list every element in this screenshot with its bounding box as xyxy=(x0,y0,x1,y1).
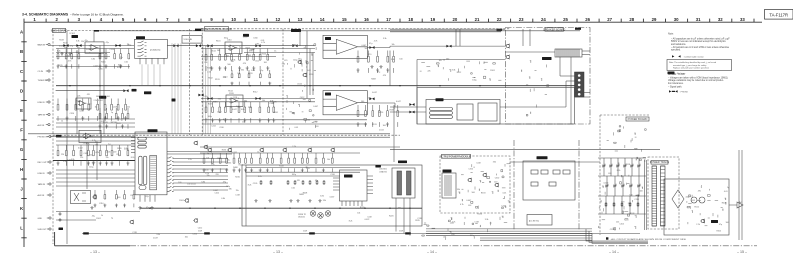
wire xyxy=(56,126,135,128)
drive transistor Q1 xyxy=(310,211,316,217)
bus wire xyxy=(56,85,576,87)
svg-text:2.2k: 2.2k xyxy=(306,168,310,170)
wire xyxy=(598,195,646,197)
selector pin xyxy=(167,160,174,161)
svg-text:0.047: 0.047 xyxy=(232,109,237,111)
IC label xyxy=(537,156,548,159)
wire xyxy=(245,165,247,226)
svg-text:REC OUT: REC OUT xyxy=(38,162,48,164)
diode xyxy=(631,164,633,167)
svg-text:– Signal path.: – Signal path. xyxy=(668,85,682,88)
wire xyxy=(200,146,400,148)
signal arrow xyxy=(369,97,374,100)
relay pins xyxy=(140,58,164,64)
volume drop wire xyxy=(180,43,182,134)
value labels xyxy=(362,38,403,80)
svg-text:C205: C205 xyxy=(98,68,103,70)
bus bend xyxy=(586,229,648,244)
svg-text:R133: R133 xyxy=(215,79,220,81)
svg-text:32: 32 xyxy=(718,17,723,22)
diode xyxy=(622,184,624,187)
transformer winding xyxy=(661,166,666,226)
svg-text:33k: 33k xyxy=(64,47,67,49)
svg-text:100: 100 xyxy=(117,197,120,199)
wire xyxy=(86,143,88,190)
sheet number box TA-F117R xyxy=(765,10,793,20)
svg-text:C412: C412 xyxy=(211,126,216,128)
board divider xyxy=(188,29,190,135)
selector pin xyxy=(131,140,135,142)
op-amp IC301 xyxy=(228,45,237,51)
svg-text:C412: C412 xyxy=(300,97,305,99)
svg-text:R220: R220 xyxy=(360,207,365,209)
op-amp IC103 xyxy=(83,133,93,139)
svg-text:R512: R512 xyxy=(694,206,699,208)
ground terminal xyxy=(59,228,64,231)
bottom note xyxy=(606,237,687,241)
resistor xyxy=(302,180,304,185)
input ladder xyxy=(57,49,80,69)
svg-text:470: 470 xyxy=(368,54,371,56)
svg-text:33k: 33k xyxy=(229,188,232,190)
svg-text:C118: C118 xyxy=(235,194,239,196)
left ruler line xyxy=(23,22,25,247)
svg-text:R101: R101 xyxy=(96,218,101,220)
svg-text:H: H xyxy=(20,167,23,172)
svg-text:C118: C118 xyxy=(474,221,478,223)
value labels xyxy=(457,161,506,207)
signal arrow xyxy=(255,97,260,100)
ground xyxy=(60,52,63,55)
transistor xyxy=(297,60,302,65)
transistor xyxy=(282,148,287,152)
svg-text:560: 560 xyxy=(96,96,99,98)
ctrl label xyxy=(441,154,470,158)
svg-text:30: 30 xyxy=(674,17,679,22)
bead label xyxy=(56,135,62,137)
wire xyxy=(624,158,626,176)
wire xyxy=(93,31,95,42)
svg-text:18: 18 xyxy=(408,17,413,22)
tone ladder lower xyxy=(205,102,275,123)
power transformer outline xyxy=(648,157,679,229)
svg-text:C412: C412 xyxy=(232,152,237,154)
svg-text:22k: 22k xyxy=(77,96,80,98)
relay pin wires xyxy=(142,64,160,85)
svg-text:10k: 10k xyxy=(357,213,360,215)
speaker board outline xyxy=(506,28,591,125)
power board outline xyxy=(600,115,650,235)
selector small oval xyxy=(139,186,146,190)
selector element xyxy=(138,141,147,144)
wire xyxy=(738,150,740,240)
selector pin xyxy=(167,179,174,180)
svg-text:3.3k: 3.3k xyxy=(391,59,395,61)
svg-text:C205: C205 xyxy=(309,74,314,76)
transistor xyxy=(467,178,472,182)
IC pins xyxy=(342,201,362,206)
svg-text:CTRL POWER MODULE: CTRL POWER MODULE xyxy=(441,154,470,158)
IC label IC101 xyxy=(72,35,79,38)
svg-text:19: 19 xyxy=(430,17,435,22)
driver bars xyxy=(397,171,402,195)
bus drop wire xyxy=(210,46,212,134)
svg-text:100: 100 xyxy=(205,170,208,172)
wire xyxy=(393,105,395,162)
svg-text:C310: C310 xyxy=(330,174,335,176)
svg-text:B: B xyxy=(20,49,23,54)
ground xyxy=(318,199,321,202)
svg-text:560: 560 xyxy=(472,192,475,194)
value labels xyxy=(61,94,130,125)
svg-text:5.6W: 5.6W xyxy=(198,231,202,233)
psu cluster xyxy=(687,186,726,226)
svg-text:560: 560 xyxy=(282,64,285,66)
svg-text:4.7k: 4.7k xyxy=(452,222,456,224)
svg-text:R220: R220 xyxy=(239,164,244,166)
board divider xyxy=(53,134,400,136)
switch cross xyxy=(74,193,86,201)
svg-text:C118: C118 xyxy=(626,164,630,166)
svg-text:C310: C310 xyxy=(468,168,473,170)
svg-text:R512: R512 xyxy=(253,92,258,94)
svg-text:470: 470 xyxy=(383,75,386,77)
wire xyxy=(201,98,315,100)
transistor xyxy=(330,148,335,152)
phono rail wire xyxy=(53,160,135,162)
svg-text:C310: C310 xyxy=(65,56,70,58)
svg-text:C: C xyxy=(20,69,23,74)
svg-text:Voltage variations may be note: Voltage variations may be noted due to n… xyxy=(668,79,724,82)
power amp IC401 xyxy=(323,35,367,58)
svg-text:E: E xyxy=(20,108,23,113)
protect board edge xyxy=(417,59,505,61)
wire xyxy=(570,57,572,124)
svg-text:22k: 22k xyxy=(127,107,130,109)
wire xyxy=(312,53,314,96)
svg-text:17: 17 xyxy=(386,17,391,22)
terminal xyxy=(578,93,581,96)
terminal xyxy=(578,79,581,82)
connector xyxy=(46,113,50,115)
svg-text:POWER BOARD: POWER BOARD xyxy=(628,117,648,121)
terminal xyxy=(578,88,581,91)
svg-text:TONE CONTROL BOARD: TONE CONTROL BOARD xyxy=(201,27,232,31)
svg-text:: nonflammable resistor: : nonflammable resistor xyxy=(683,56,704,59)
svg-text:C205: C205 xyxy=(106,151,111,153)
svg-text:R101: R101 xyxy=(490,70,495,72)
svg-text:10k: 10k xyxy=(262,100,265,102)
svg-text:0.022: 0.022 xyxy=(379,130,384,132)
svg-text:560: 560 xyxy=(365,48,368,50)
mid ladder xyxy=(99,108,129,129)
op-amp IC102 box xyxy=(76,98,91,109)
top bus wire xyxy=(94,30,580,32)
value labels xyxy=(604,164,643,231)
wire xyxy=(201,101,315,103)
wire xyxy=(246,175,340,177)
svg-text:0.01: 0.01 xyxy=(295,127,299,129)
svg-text:15k: 15k xyxy=(236,190,239,192)
svg-text:C118: C118 xyxy=(132,232,136,234)
svg-text:R133: R133 xyxy=(481,193,486,195)
svg-text:0.022: 0.022 xyxy=(191,183,196,185)
wire xyxy=(56,144,135,146)
svg-text:2.2k: 2.2k xyxy=(211,164,215,166)
svg-text:3.3k: 3.3k xyxy=(156,234,160,236)
wire xyxy=(505,51,555,53)
value labels xyxy=(92,195,203,240)
svg-text:15k: 15k xyxy=(81,41,84,43)
wire xyxy=(246,167,360,169)
signal arrow xyxy=(409,103,414,106)
transistor xyxy=(227,148,232,152)
svg-text:20: 20 xyxy=(453,17,458,22)
value labels xyxy=(686,187,730,233)
svg-text:2SD2012: 2SD2012 xyxy=(298,217,305,219)
svg-text:1k: 1k xyxy=(238,98,240,100)
svg-text:33k: 33k xyxy=(457,189,460,191)
bus wire xyxy=(56,136,390,138)
rail wire xyxy=(82,233,640,235)
svg-text:26: 26 xyxy=(585,17,590,22)
bus wire xyxy=(28,133,56,135)
bus wire xyxy=(426,230,592,232)
muting switch S101 xyxy=(71,191,91,204)
signal arrow xyxy=(196,44,201,47)
wire xyxy=(403,198,405,233)
ground xyxy=(90,206,93,209)
small transformer T601 xyxy=(442,173,456,198)
svg-text:– 15 –: – 15 – xyxy=(737,250,747,254)
capacitor xyxy=(59,218,62,222)
power supply board xyxy=(664,179,729,235)
speaker board label xyxy=(543,27,565,31)
signal arrow xyxy=(446,45,451,48)
tone ladder upper xyxy=(205,49,269,71)
transformer wire xyxy=(646,160,648,230)
svg-text:TUNER IN: TUNER IN xyxy=(38,80,48,82)
wire xyxy=(56,185,135,187)
svg-text:MAIN IN: MAIN IN xyxy=(38,44,46,47)
selector pin xyxy=(131,137,135,139)
transformer bars xyxy=(445,175,451,196)
svg-text:AUX IN: AUX IN xyxy=(38,124,45,127)
selector pin xyxy=(131,149,135,151)
connector xyxy=(47,161,51,163)
transistor xyxy=(307,148,312,152)
signal arrow xyxy=(207,44,212,47)
svg-text:– 13 –: – 13 – xyxy=(273,250,283,254)
svg-text:C310: C310 xyxy=(109,49,114,51)
signal path symbol xyxy=(669,90,688,93)
wire xyxy=(606,176,608,196)
svg-text:560: 560 xyxy=(361,101,364,103)
svg-text:R220: R220 xyxy=(235,176,240,178)
svg-text:27: 27 xyxy=(607,17,612,22)
svg-text:0.047: 0.047 xyxy=(604,183,609,185)
svg-text:2.2k: 2.2k xyxy=(63,161,67,163)
value labels xyxy=(178,150,231,186)
resistor xyxy=(621,202,623,207)
svg-text:8.2k: 8.2k xyxy=(349,220,353,222)
svg-text:– 14 –: – 14 – xyxy=(427,250,437,254)
IC pins right xyxy=(367,176,373,194)
wire xyxy=(103,49,105,134)
svg-text:100: 100 xyxy=(178,182,181,184)
svg-text:0.047: 0.047 xyxy=(59,45,64,47)
svg-text:C412: C412 xyxy=(198,228,203,230)
small part xyxy=(549,182,556,186)
svg-text:IC101: IC101 xyxy=(70,33,76,35)
diode xyxy=(630,184,632,187)
drive transistor Q3 xyxy=(325,211,331,217)
ground xyxy=(138,206,141,209)
svg-text:0.047: 0.047 xyxy=(213,190,218,192)
svg-text:10k: 10k xyxy=(77,47,80,49)
svg-text:100: 100 xyxy=(185,236,188,238)
wire xyxy=(244,52,315,54)
signal arrow xyxy=(198,94,203,97)
op-amp IC102 xyxy=(78,101,87,106)
wire xyxy=(50,45,134,47)
wire xyxy=(50,136,135,138)
ground xyxy=(379,65,382,68)
title text xyxy=(22,12,124,16)
svg-text:C310: C310 xyxy=(99,203,104,205)
svg-text:220: 220 xyxy=(113,152,116,154)
svg-text:AUX IN: AUX IN xyxy=(38,194,45,197)
relay label xyxy=(136,36,145,39)
svg-text:0.047: 0.047 xyxy=(313,106,318,108)
svg-text:4.7k: 4.7k xyxy=(460,204,464,206)
connector xyxy=(46,79,50,81)
svg-text:4.7k: 4.7k xyxy=(374,41,378,43)
wire xyxy=(390,45,505,47)
svg-text:24: 24 xyxy=(541,17,546,22)
wire xyxy=(529,29,531,46)
power board label xyxy=(626,117,649,121)
wire xyxy=(203,119,367,121)
svg-text:C412: C412 xyxy=(313,122,318,124)
board divider xyxy=(201,29,203,135)
svg-text:R315: R315 xyxy=(717,230,722,232)
wire xyxy=(203,123,367,125)
value labels xyxy=(204,37,276,81)
rec selector RY301 xyxy=(426,100,500,125)
svg-text:C118: C118 xyxy=(476,163,480,165)
wire xyxy=(575,96,591,98)
svg-text:R408: R408 xyxy=(303,193,308,195)
svg-text:R101: R101 xyxy=(216,40,221,42)
transistor xyxy=(193,141,198,145)
svg-text:and tantalums.: and tantalums. xyxy=(671,43,686,46)
IC label xyxy=(436,98,444,101)
svg-text:1k: 1k xyxy=(89,52,91,54)
ground xyxy=(296,199,299,202)
connector xyxy=(46,70,50,72)
wire xyxy=(389,51,391,86)
svg-text:6.8k: 6.8k xyxy=(202,182,206,184)
selector element xyxy=(150,156,157,190)
svg-text:TA-F117R: TA-F117R xyxy=(769,13,788,18)
resistor xyxy=(287,180,289,185)
svg-text:C310: C310 xyxy=(227,40,232,42)
svg-text:100: 100 xyxy=(107,96,110,98)
svg-text:8.2k: 8.2k xyxy=(248,185,252,187)
selector fan wires xyxy=(173,159,228,191)
svg-text:220: 220 xyxy=(451,234,454,236)
svg-text:C205: C205 xyxy=(253,183,258,185)
svg-text:1k: 1k xyxy=(61,120,63,122)
selector element xyxy=(138,145,147,148)
wire xyxy=(617,158,619,176)
svg-text:C310: C310 xyxy=(87,104,92,106)
wire xyxy=(455,29,457,46)
svg-text:1k: 1k xyxy=(443,60,445,62)
svg-text:15k: 15k xyxy=(207,175,210,177)
wire xyxy=(582,54,590,56)
svg-text:2.2k: 2.2k xyxy=(292,146,296,148)
value labels xyxy=(61,140,134,168)
transistor xyxy=(700,219,705,223)
svg-text:no mark : FLOAT: no mark : FLOAT xyxy=(668,73,686,76)
svg-text:33k: 33k xyxy=(228,163,231,165)
svg-text:: ALL CIRCUIT BOARDS ARE SHOWN: : ALL CIRCUIT BOARDS ARE SHOWN FROM COMP… xyxy=(610,238,687,241)
IC label xyxy=(144,91,151,94)
selector top wires xyxy=(167,152,232,155)
svg-text:100: 100 xyxy=(383,125,386,127)
selector sub box xyxy=(478,103,497,121)
svg-text:100: 100 xyxy=(726,222,729,224)
svg-text:0.047: 0.047 xyxy=(466,200,471,202)
wire xyxy=(610,158,612,176)
svg-text:TAPE IN: TAPE IN xyxy=(38,183,46,186)
bus wire xyxy=(56,133,390,135)
diode cluster xyxy=(598,157,646,230)
volume drop wire xyxy=(171,43,173,134)
relay contact xyxy=(138,48,147,50)
svg-text:0.01: 0.01 xyxy=(261,40,265,42)
op-amp IC103 box xyxy=(79,130,101,142)
sub power box xyxy=(523,161,575,200)
svg-text:R220: R220 xyxy=(389,216,394,218)
svg-text:220: 220 xyxy=(130,195,133,197)
resistor xyxy=(629,202,631,207)
svg-text:[2ch]•[2ch]: [2ch]•[2ch] xyxy=(150,50,161,52)
capacitor xyxy=(59,212,62,216)
wire xyxy=(56,118,135,120)
ground xyxy=(254,199,257,202)
svg-text:13: 13 xyxy=(298,17,303,22)
bus wire xyxy=(480,239,592,241)
sparse cluster xyxy=(607,126,647,152)
svg-text:33: 33 xyxy=(740,17,745,22)
transformer winding xyxy=(652,166,657,226)
connector xyxy=(47,183,51,185)
svg-text:R408: R408 xyxy=(722,203,727,205)
selector pins bottom xyxy=(140,195,155,202)
svg-text:560: 560 xyxy=(217,50,220,52)
selector pin xyxy=(167,183,174,184)
wire xyxy=(500,106,566,108)
resistor xyxy=(260,180,262,185)
svg-text:2.2k: 2.2k xyxy=(696,224,700,226)
svg-text:0.047: 0.047 xyxy=(86,49,91,51)
ground xyxy=(150,206,153,209)
svg-text:– 14 –: – 14 – xyxy=(609,250,619,254)
svg-text:1k: 1k xyxy=(272,102,274,104)
